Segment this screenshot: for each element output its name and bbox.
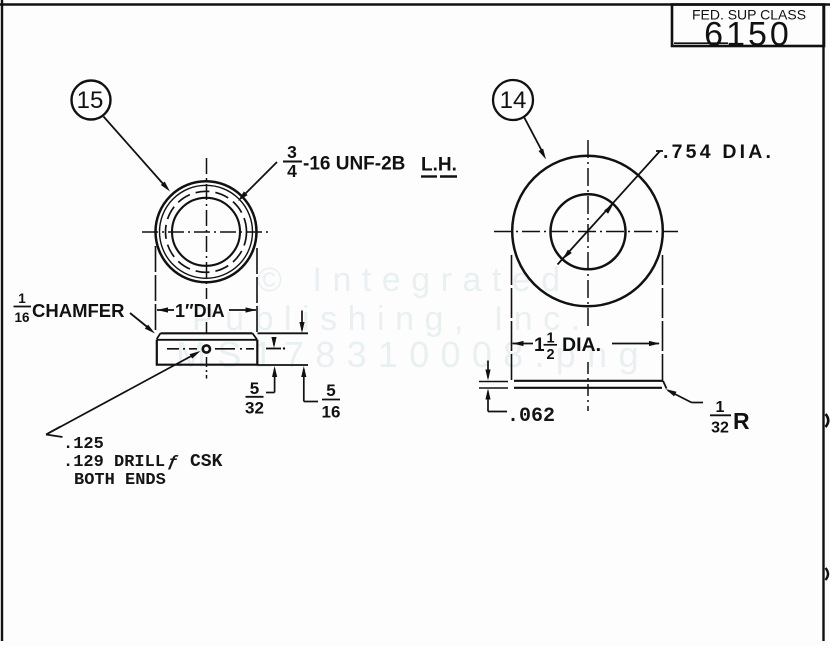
svg-text:1: 1 (534, 335, 545, 356)
part14 vertical centerline (587, 140, 589, 411)
dim 5/16 top arrow (299, 311, 304, 334)
leader 1/32 R (666, 389, 704, 403)
svg-text:CSK: CSK (190, 452, 223, 472)
svg-text:14: 14 (500, 87, 527, 114)
dimension 1 1/2 DIA (513, 331, 661, 364)
dia leader diagonal (558, 151, 664, 265)
svg-text:ƒ: ƒ (167, 453, 179, 472)
svg-text:15: 15 (77, 87, 104, 114)
chamfer leader (130, 313, 155, 334)
chamfer fraction 1/16 (14, 291, 32, 325)
border left (1, 0, 3, 641)
dim 5/16 text (322, 381, 341, 422)
svg-text:CHAMFER: CHAMFER (32, 300, 125, 321)
svg-text:1″DIA: 1″DIA (175, 301, 225, 321)
part15 left extension line (155, 246, 157, 333)
leader balloon 14 (524, 117, 546, 160)
svg-text:.062: .062 (507, 405, 555, 428)
svg-text:4: 4 (287, 161, 297, 181)
dimension 1 DIA (157, 301, 257, 321)
svg-text:L.H.: L.H. (421, 155, 457, 176)
part15 plate chamfer edge (157, 339, 258, 341)
svg-text:2: 2 (546, 347, 554, 363)
part15 thread dashed circle (166, 191, 247, 272)
part14 right extension line (662, 255, 664, 380)
leader balloon 15 (104, 117, 171, 192)
dim 5/16 bottom arrow (301, 366, 318, 402)
dim .062 bottom arrow (485, 389, 507, 412)
svg-text:.125: .125 (63, 435, 104, 454)
part15 plate top edge (157, 333, 257, 339)
part15 outer circle (156, 181, 257, 282)
svg-text:16: 16 (14, 310, 30, 325)
svg-text:32: 32 (711, 420, 729, 437)
part15 right extension line (256, 248, 258, 332)
edge artifact paren (826, 568, 829, 580)
part15 plate bottom extension to right (258, 364, 308, 366)
svg-text:5: 5 (250, 379, 259, 398)
svg-text:.754 DIA.: .754 DIA. (663, 141, 774, 163)
svg-text:-16 UNF-2B: -16 UNF-2B (303, 154, 405, 175)
balloon 14 (493, 80, 533, 120)
part15 vertical centerline (206, 158, 208, 379)
dim 5/32 text (245, 379, 264, 418)
balloon 15 (72, 81, 111, 120)
dim 5/32 bottom arrow (266, 366, 277, 393)
border top (0, 3, 830, 6)
svg-text:1: 1 (18, 291, 26, 306)
FSC box (672, 5, 824, 47)
text 1/32 R (710, 399, 750, 437)
drill note leader (46, 351, 201, 437)
svg-text:32: 32 (245, 399, 264, 418)
dim 5/32 top arrow (271, 337, 276, 348)
part14 left extension line (511, 255, 513, 380)
drill note text (63, 435, 223, 490)
dim .062 top arrow (485, 361, 490, 381)
part15 plate body (157, 340, 257, 365)
thread callout text 3/4-16UNF-2B L.H. (283, 142, 457, 181)
svg-text:5: 5 (326, 381, 335, 400)
part15 horizontal centerline (142, 231, 272, 233)
part15 plate hole centerline (167, 348, 254, 350)
part14 plate bottom edge (479, 381, 667, 389)
part15 plate hole (203, 345, 210, 352)
svg-text:16: 16 (322, 403, 341, 422)
svg-text:6150: 6150 (704, 16, 792, 54)
thread callout leader (238, 162, 277, 201)
svg-text:.129 DRILL: .129 DRILL (63, 453, 165, 472)
svg-text:R: R (733, 408, 750, 434)
part15 bore circle (172, 198, 240, 266)
part14 outer circle (512, 156, 663, 307)
border right (822, 4, 824, 641)
svg-text:© Integrated: © Integrated (257, 261, 571, 299)
svg-text:DIA.: DIA. (562, 334, 601, 356)
svg-text:BOTH ENDS: BOTH ENDS (74, 471, 166, 490)
part15 plate top extension to right (258, 332, 309, 334)
svg-text:3: 3 (287, 142, 297, 162)
part14 bore circle (551, 194, 626, 269)
part15 hole centerline right stub (266, 347, 285, 349)
part14 horizontal centerline (494, 231, 678, 233)
part14 plate top edge (479, 380, 663, 383)
svg-text:1: 1 (716, 399, 725, 416)
part15 outer circle inner edge (160, 185, 253, 278)
edge artifact K (826, 414, 829, 427)
